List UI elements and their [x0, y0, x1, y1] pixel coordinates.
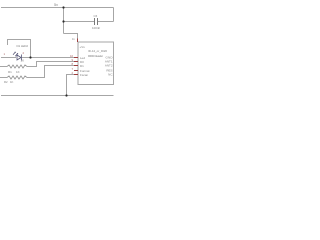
- wire LED loop up and left: [8, 40, 31, 58]
- svg-text:RFID Reader: RFID Reader: [88, 54, 103, 58]
- svg-text:R1: R1: [8, 70, 12, 74]
- pin 9 stub: [74, 61, 78, 63]
- LED D1 symbol: [13, 52, 22, 60]
- svg-text:5v: 5v: [54, 3, 58, 7]
- wire cap line left segment: [64, 21, 95, 23]
- wire +Vs feed to IC top pin: [64, 34, 78, 39]
- node junction dot rail/x63: [62, 6, 64, 8]
- svg-text:1K: 1K: [16, 70, 20, 74]
- wire GND bottom rail: [1, 95, 114, 97]
- svg-text:D1 LED2: D1 LED2: [17, 44, 29, 48]
- wire +5V top rail: [1, 7, 114, 9]
- wire LED anode stub: [1, 57, 16, 59]
- wire resistor R1 left lead: [0, 77, 7, 79]
- svg-text:11: 11: [72, 37, 75, 41]
- svg-text:1: 1: [4, 52, 6, 56]
- IC left pin stubs: [74, 39, 78, 75]
- pin 8 stub: [74, 65, 78, 67]
- pin 10 stub: [74, 57, 78, 59]
- svg-text:ID-12_or_ID20: ID-12_or_ID20: [88, 49, 107, 53]
- svg-text:R2: R2: [4, 80, 8, 84]
- node junction dot LED cathode: [29, 56, 31, 58]
- pin 11 stub top: [77, 39, 79, 43]
- resistor R1 zigzag: [7, 76, 27, 79]
- wire cap line right segment: [98, 21, 114, 23]
- op IC U1 box: [78, 42, 114, 85]
- svg-text:2: 2: [23, 51, 25, 55]
- wire ground from pin to bottom rail: [67, 75, 75, 96]
- svg-text:1K: 1K: [21, 58, 25, 62]
- node junction dot ground rail: [65, 94, 67, 96]
- svg-text:100nF: 100nF: [92, 26, 100, 30]
- node junction dot cap line/x63: [62, 20, 64, 22]
- capacitor C6 plates: [95, 18, 98, 25]
- svg-text:+Vs: +Vs: [80, 45, 86, 49]
- svg-text:D1: D1: [80, 64, 84, 68]
- wire resistor R2 left lead: [0, 66, 7, 68]
- wire resistor R1 right lead step to pin 8: [27, 66, 74, 78]
- wire resistor R2 right lead step to pin 9: [27, 62, 74, 67]
- wire LED cathode to pin 10: [22, 57, 74, 59]
- pin 2 stub: [74, 74, 78, 76]
- svg-text:Fscan: Fscan: [80, 73, 89, 77]
- svg-text:1K: 1K: [10, 80, 14, 84]
- wire right drop from rail to cap line: [113, 8, 115, 22]
- resistor R2 zigzag: [7, 65, 27, 68]
- wire vertical at x63 from rail to +Vs feed: [63, 8, 65, 34]
- pin 7 stub: [74, 70, 78, 72]
- svg-text:C6: C6: [94, 14, 98, 18]
- svg-text:ANT2: ANT2: [105, 63, 113, 67]
